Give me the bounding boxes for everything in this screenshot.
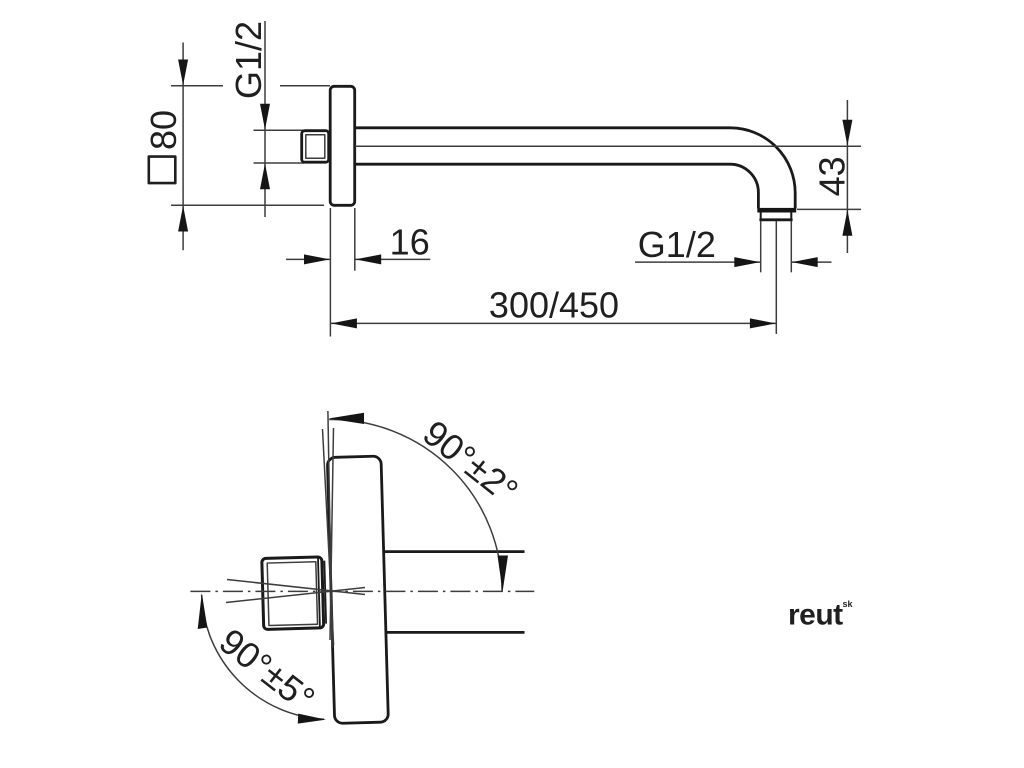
svg-text:sk: sk — [843, 599, 854, 609]
dim line square80 — [182, 43, 184, 251]
ext line 16 right — [354, 208, 356, 271]
ext line square80 top — [171, 85, 223, 87]
ext line G12 outlet right — [790, 221, 792, 272]
dim line 16 right part — [355, 258, 431, 260]
svg-text:300/450: 300/450 — [489, 285, 619, 326]
label square symbol — [149, 157, 176, 184]
arrow G12 outlet right — [792, 257, 818, 267]
ext line 16 left / 300-450 left — [329, 208, 331, 337]
svg-text:16: 16 — [390, 221, 430, 262]
pipe centerline — [355, 145, 861, 147]
svg-text:G1/2: G1/2 — [228, 21, 269, 99]
arrow square80 bottom — [178, 206, 188, 232]
dim line G12 top — [264, 21, 266, 217]
square connector side view — [302, 131, 329, 163]
arrow G12 outlet left — [734, 257, 760, 267]
axis centerline dash-dot — [190, 590, 534, 592]
arrow 300-450 right — [750, 318, 776, 328]
pipe outer edge — [355, 128, 796, 209]
ext line G12 outlet left — [760, 221, 762, 272]
outlet nipple bottom edge — [759, 218, 792, 221]
ext line G12 top upper — [254, 129, 305, 131]
arrow arc2deg end — [498, 556, 509, 592]
flange side view — [330, 86, 355, 205]
arc 90deg2 — [329, 419, 502, 591]
outlet centerline — [775, 221, 777, 334]
arrow arc2deg start — [329, 413, 365, 424]
ext line 43 bottom — [797, 208, 861, 210]
ext line square80 bottom — [171, 204, 324, 206]
arrow arc5deg end — [298, 714, 326, 724]
tolerance fan vertical line a — [323, 429, 334, 645]
pipe bottom edge bottom view — [385, 631, 525, 634]
tolerance fan horizontal line a — [226, 588, 365, 603]
square connector inner thread line — [306, 135, 325, 158]
dim line 16 left part — [286, 258, 330, 260]
pipe inner edge — [355, 164, 759, 208]
arrow arc5deg start — [198, 593, 208, 629]
washer line — [324, 561, 326, 624]
svg-text:G1/2: G1/2 — [638, 224, 716, 265]
thread relief line — [318, 557, 320, 627]
tolerance fan horizontal line b — [227, 580, 365, 595]
outlet shoulder band — [757, 208, 796, 213]
dim line 300-450 — [331, 322, 777, 324]
arrow G12 top lower — [260, 163, 270, 189]
arrow square80 top — [178, 60, 188, 86]
outlet nipple right side — [790, 213, 792, 220]
arrow 16 right — [355, 254, 381, 264]
arrow 16 left — [304, 254, 330, 264]
svg-text:43: 43 — [812, 156, 853, 196]
arrow 43 bottom — [842, 210, 852, 236]
arc 90deg5 — [202, 595, 324, 720]
svg-text:reut: reut — [788, 599, 843, 632]
flange front view — [327, 456, 388, 723]
dim line 43 — [846, 100, 848, 253]
tolerance fan vertical line c — [330, 428, 334, 640]
dim line G12 outlet right part — [791, 261, 831, 263]
svg-text:80: 80 — [143, 110, 184, 150]
ext line G12 top lower — [254, 162, 305, 164]
square connector front view — [262, 557, 324, 630]
outlet nipple left side — [760, 213, 762, 220]
dim line G12 outlet left part — [635, 261, 761, 263]
arrow 300-450 left — [331, 318, 357, 328]
square connector inner thread — [267, 562, 317, 626]
pipe top edge bottom view — [385, 550, 525, 553]
tolerance fan vertical line b — [328, 411, 332, 648]
arrow G12 top upper — [260, 104, 270, 130]
arrow 43 top — [842, 120, 852, 146]
